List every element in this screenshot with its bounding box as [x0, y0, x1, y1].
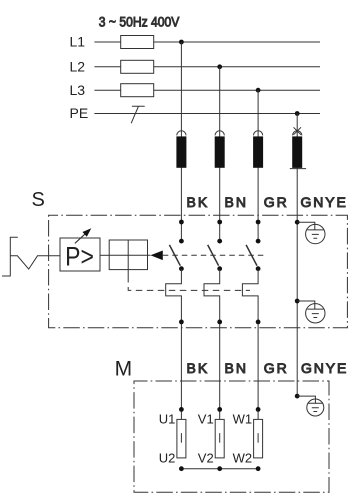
fuse F2: [121, 60, 154, 73]
star junction V2: [217, 466, 222, 471]
svg-text:L2: L2: [70, 59, 86, 75]
star point wire: [181, 468, 258, 470]
wire L3: [94, 89, 320, 91]
trip dashed link (connector to overloads): [128, 276, 250, 290]
overload BN: [204, 269, 220, 420]
contact GR: terminal dots: [256, 220, 261, 225]
junction L3/GR: [256, 88, 261, 93]
wire L2: [94, 66, 320, 68]
motor terminal V1: junction: [217, 407, 222, 412]
junction GR at S box bottom: [256, 320, 261, 325]
svg-text:BN: BN: [225, 194, 248, 210]
fuse F1: [121, 36, 154, 49]
wire P> to connector block: [100, 254, 109, 256]
svg-text:W1: W1: [233, 411, 253, 426]
earth symbol M: [297, 396, 324, 416]
winding W: [254, 419, 263, 458]
overload GR: [242, 269, 258, 420]
svg-text:GR: GR: [264, 360, 289, 376]
svg-text:L3: L3: [70, 82, 86, 98]
wire L1: [94, 41, 320, 43]
cable gland BK: [176, 131, 186, 168]
junction L2/BN: [217, 64, 222, 69]
capillary zigzag: [10, 256, 60, 269]
svg-text:U1: U1: [159, 411, 176, 426]
svg-text:P>: P>: [65, 242, 94, 272]
actuator arrow: [150, 251, 162, 261]
svg-text:BK: BK: [187, 194, 210, 210]
star junction U2: [179, 466, 184, 471]
wire GNYE to motor: [296, 301, 298, 396]
pressure switch P> box: [60, 238, 100, 271]
PE marker: [131, 106, 145, 123]
winding V: [215, 419, 224, 458]
svg-text:L1: L1: [70, 34, 86, 50]
cable gland BN: [215, 131, 225, 168]
earth terminal M: junction: [295, 394, 300, 399]
earth symbol S upper: [297, 222, 325, 244]
wire BN drop: [219, 67, 221, 241]
contact BN: terminal dots: [217, 220, 222, 225]
winding U: [177, 419, 186, 458]
earth terminal S upper: junction: [295, 220, 300, 225]
svg-text:GR: GR: [264, 194, 289, 210]
overload BK: [166, 269, 182, 420]
enclosure S: [49, 215, 348, 328]
junction PE/GNYE: [295, 111, 300, 116]
contact BN blade: [208, 245, 219, 266]
svg-text:U2: U2: [159, 451, 176, 466]
svg-text:PE: PE: [70, 105, 89, 121]
junction BN at S box bottom: [217, 320, 222, 325]
contact GR blade: [246, 245, 257, 266]
contact BK blade: [169, 245, 180, 266]
junction BK at S box bottom: [179, 320, 184, 325]
junction L1/BK: [179, 40, 184, 45]
svg-text:V1: V1: [198, 411, 214, 426]
wire GR drop: [257, 90, 259, 241]
svg-text:3 ~ 50Hz 400V: 3 ~ 50Hz 400V: [99, 14, 180, 30]
motor terminal U1: junction: [179, 407, 184, 412]
connector block (2x2): [109, 240, 150, 270]
svg-text:M: M: [115, 357, 133, 380]
wire GNYE drop: [296, 114, 298, 302]
star junction W2: [256, 466, 261, 471]
svg-text:V2: V2: [198, 451, 214, 466]
fuse F3: [121, 84, 154, 97]
svg-text:BK: BK: [187, 360, 210, 376]
adjustment arrow on P>: [75, 233, 86, 243]
enclosure M: [134, 381, 329, 492]
svg-text:BN: BN: [225, 360, 248, 376]
earth symbol S lower: [297, 301, 325, 323]
actuating dashed link (to contacts): [163, 254, 266, 256]
wire PE: [94, 113, 320, 115]
wire BK drop: [180, 42, 182, 241]
svg-text:GNYE: GNYE: [301, 360, 348, 376]
motor terminal W1: junction: [256, 407, 261, 412]
cable gland GR: [253, 131, 263, 168]
pressure port bracket: [2, 237, 18, 276]
svg-text:S: S: [32, 189, 45, 211]
svg-text:W2: W2: [233, 451, 253, 466]
contact BK: terminal dots: [179, 220, 184, 225]
connector block stub down: [127, 270, 129, 276]
svg-text:GNYE: GNYE: [301, 194, 348, 210]
earth terminal S lower: junction: [295, 299, 300, 304]
cable gland GNYE: [290, 127, 306, 168]
